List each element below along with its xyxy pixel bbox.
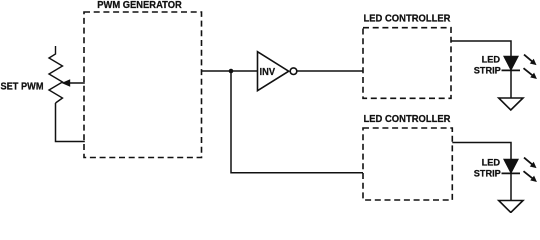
LED strip 2 diode D2 [502, 159, 521, 173]
wire LED controller 2 to LED strip 2 [452, 143, 511, 160]
emission arrows of D2 [524, 158, 537, 182]
PWM generator block [84, 12, 202, 158]
LED strip 1 diode D1 [502, 56, 521, 70]
label LED STRIP 2 [474, 157, 501, 178]
svg-text:LED CONTROLLER: LED CONTROLLER [364, 113, 451, 125]
svg-text:PWM GENERATOR: PWM GENERATOR [97, 0, 182, 11]
ground 1 [499, 98, 523, 110]
emission arrows of D1 [524, 55, 537, 79]
wire D2 to ground [510, 173, 512, 200]
svg-text:LED CONTROLLER: LED CONTROLLER [364, 12, 451, 24]
wire junction down to LED controller 2 [231, 71, 363, 173]
svg-text:INV: INV [260, 66, 276, 78]
svg-text:SET PWM: SET PWM [1, 80, 44, 92]
wire PWM generator output to inverter [202, 70, 258, 72]
svg-text:STRIP: STRIP [474, 168, 501, 178]
LED controller 1 block [363, 28, 451, 99]
wiper arrow of R1 [62, 79, 85, 86]
node junction dot [229, 69, 234, 74]
ground 2 [499, 201, 523, 213]
inverter U1 INV [258, 52, 297, 91]
label LED STRIP 1 [474, 54, 501, 75]
potentiometer R1 (SET PWM) [49, 46, 63, 103]
wire inverter output to LED controller 1 [297, 70, 363, 72]
wire LED controller 1 to LED strip 1 [451, 41, 511, 57]
svg-text:LED: LED [482, 157, 501, 167]
LED controller 2 block [363, 128, 452, 200]
svg-text:LED: LED [482, 54, 501, 64]
wire R1 bottom to PWM generator [56, 103, 85, 142]
wire D1 to ground [510, 70, 512, 98]
svg-text:STRIP: STRIP [474, 65, 501, 75]
